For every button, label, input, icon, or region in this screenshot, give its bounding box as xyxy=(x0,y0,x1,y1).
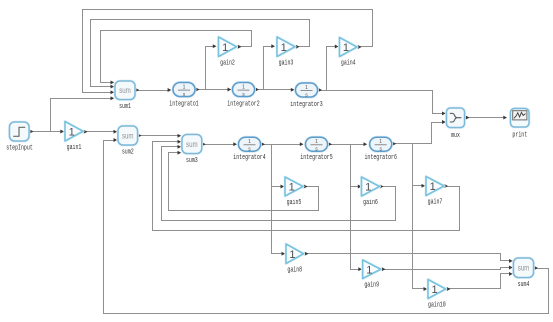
svg-text:1: 1 xyxy=(183,84,186,90)
svg-text:1: 1 xyxy=(379,139,382,145)
svg-text:1: 1 xyxy=(69,126,75,138)
svg-text:1: 1 xyxy=(289,182,295,194)
svg-text:1: 1 xyxy=(222,42,228,54)
svg-text:integrator3: integrator3 xyxy=(290,101,322,109)
svg-text:1: 1 xyxy=(315,139,318,145)
svg-text:integrator2: integrator2 xyxy=(227,101,259,109)
svg-text:sum3: sum3 xyxy=(186,157,198,165)
svg-text:1: 1 xyxy=(289,249,295,261)
svg-text:sum2: sum2 xyxy=(122,148,134,156)
svg-text:gain5: gain5 xyxy=(287,199,302,207)
svg-text:gain8: gain8 xyxy=(287,267,302,275)
svg-text:sum: sum xyxy=(186,140,198,149)
svg-text:gain10: gain10 xyxy=(428,302,446,310)
svg-text:sum1: sum1 xyxy=(119,103,131,111)
svg-text:1: 1 xyxy=(431,284,437,296)
svg-text:gain4: gain4 xyxy=(341,60,356,68)
svg-text:sum: sum xyxy=(122,131,134,140)
svg-text:sum: sum xyxy=(518,264,530,273)
svg-text:gain7: gain7 xyxy=(428,199,443,207)
svg-text:gain9: gain9 xyxy=(364,282,379,290)
svg-text:1: 1 xyxy=(305,85,308,91)
svg-text:sum4: sum4 xyxy=(518,281,530,289)
svg-text:sum: sum xyxy=(119,86,131,95)
svg-text:gain3: gain3 xyxy=(279,60,294,68)
svg-text:1: 1 xyxy=(430,181,436,193)
svg-text:stepInput: stepInput xyxy=(6,145,33,153)
svg-text:integrato1: integrato1 xyxy=(169,101,199,109)
svg-text:integrator5: integrator5 xyxy=(300,154,332,162)
svg-text:integrator4: integrator4 xyxy=(233,154,265,162)
svg-text:1: 1 xyxy=(281,42,287,54)
svg-text:1: 1 xyxy=(366,264,372,276)
svg-text:1: 1 xyxy=(242,84,245,90)
svg-text:integrator6: integrator6 xyxy=(364,154,396,162)
svg-text:gain6: gain6 xyxy=(363,199,378,207)
svg-text:gain2: gain2 xyxy=(220,60,235,68)
svg-text:1: 1 xyxy=(343,42,349,54)
svg-text:1: 1 xyxy=(248,139,251,145)
svg-text:mux: mux xyxy=(451,132,460,140)
svg-text:1: 1 xyxy=(365,182,371,194)
svg-text:print: print xyxy=(512,132,527,140)
svg-text:gain1: gain1 xyxy=(67,144,82,152)
